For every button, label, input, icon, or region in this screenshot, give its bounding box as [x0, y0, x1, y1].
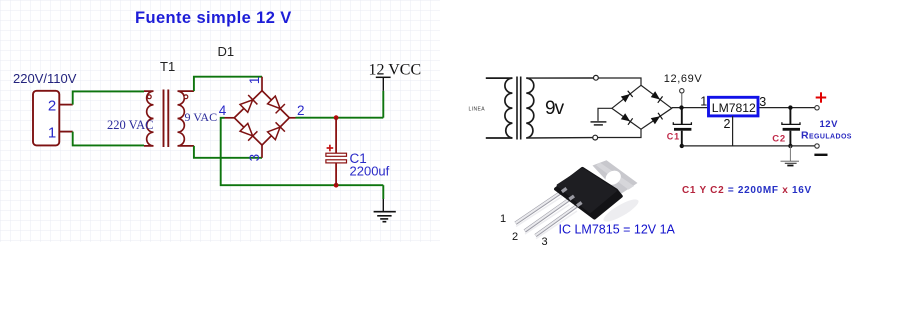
bridge D1 pin 4 stub (left)	[225, 117, 235, 119]
svg-text:2200uf: 2200uf	[350, 164, 390, 179]
transformer (right) primary winding	[505, 78, 512, 138]
svg-text:3: 3	[542, 236, 548, 248]
bridge D1 diode bottom-left	[239, 123, 257, 141]
bridge rectifier D1 diamond outline	[234, 91, 289, 145]
capacitor C2 top plate	[782, 122, 800, 124]
regulator U1 LM7812 box	[709, 97, 759, 116]
transformer T1 secondary polarity dot	[184, 95, 188, 99]
bridge D1 pin 1 stub (top)	[261, 77, 263, 91]
bridge (right) diode bottom-right	[651, 113, 663, 125]
minus sign	[814, 154, 827, 156]
transformer T1 core	[163, 90, 165, 148]
svg-text:9 VAC: 9 VAC	[185, 110, 218, 124]
package shadow	[601, 196, 641, 226]
connector pin 1 stub	[59, 131, 72, 133]
junction at C1 bottom	[334, 183, 339, 188]
package tab (metal)	[593, 160, 638, 195]
wire: top terminal to bridge top vertex	[598, 78, 641, 85]
capacitor C1 bottom lead	[335, 163, 337, 185]
package leg 2	[525, 199, 570, 231]
terminal circle top	[594, 75, 599, 80]
svg-text:2: 2	[297, 103, 305, 118]
terminal circle bottom	[593, 135, 598, 140]
package body top face	[558, 169, 616, 212]
svg-text:1: 1	[500, 213, 506, 225]
capacitor C1 plates	[326, 153, 347, 156]
wire: bridge pin 4 to ground rail	[221, 118, 384, 185]
connector pin 2 stub	[59, 104, 72, 106]
svg-text:IC LM7815 = 12V 1A: IC LM7815 = 12V 1A	[559, 223, 676, 237]
capacitor C1 plus sign	[327, 145, 334, 152]
package leg 3	[536, 206, 578, 236]
svg-text:220V/110V: 220V/110V	[13, 71, 77, 86]
svg-text:C1 Y C2 = 2200MF x 16V: C1 Y C2 = 2200MF x 16V	[682, 185, 812, 196]
transformer (right) secondary winding	[526, 78, 534, 138]
capacitor C1 (right) bottom plate	[674, 128, 691, 131]
output terminal circle plus	[815, 106, 819, 110]
wire: ground rail down to ground symbol	[382, 185, 384, 199]
grid background of left schematic	[0, 0, 440, 242]
junction at C1 top	[334, 115, 339, 120]
output terminal circle minus	[815, 144, 819, 148]
svg-text:C1: C1	[667, 131, 680, 141]
package leg 1	[516, 192, 562, 224]
leg nubs on body edge	[562, 188, 567, 191]
wire: secondary bottom to terminal circle	[526, 137, 593, 139]
bridge (right) diode bottom-left	[621, 113, 633, 125]
svg-text:12 VCC: 12 VCC	[369, 62, 422, 79]
ground symbol (left schematic)	[374, 199, 396, 222]
capacitor C2 leads	[789, 108, 791, 124]
bridge D1 diode top-left	[239, 95, 257, 113]
ground symbol (under rail)	[781, 146, 800, 166]
package body silhouette with thickness	[556, 169, 621, 218]
svg-text:9v: 9v	[545, 98, 565, 119]
svg-text:T1: T1	[160, 59, 175, 74]
wire: connector pin1 to transformer primary bottom	[73, 132, 144, 146]
bridge D1 diode top-right	[267, 95, 285, 113]
wire: bottom terminal to bridge bottom vertex	[598, 129, 641, 137]
bridge D1 diode bottom-right	[267, 122, 285, 140]
ground symbol (bridge left)	[591, 122, 607, 125]
capacitor C1 (right) leads	[681, 108, 683, 124]
wire: secondary bottom to bridge pin 3	[194, 146, 262, 158]
svg-text:D1: D1	[218, 44, 235, 59]
transformer T1 secondary winding	[178, 91, 194, 146]
probe terminal circle	[680, 89, 684, 93]
svg-text:2: 2	[48, 98, 56, 115]
bottom rail (right schematic)	[682, 145, 815, 147]
probe lead	[681, 93, 683, 108]
wire: bridge pin 2 to output node	[296, 117, 384, 119]
svg-text:220 VAC: 220 VAC	[107, 118, 153, 132]
svg-text:4: 4	[219, 103, 227, 118]
svg-text:2: 2	[512, 231, 518, 243]
svg-text:3: 3	[247, 154, 262, 162]
svg-text:1: 1	[48, 125, 56, 142]
svg-text:1: 1	[247, 77, 262, 85]
capacitor C2 bottom plate	[783, 128, 800, 131]
svg-text:LINEA: LINEA	[469, 106, 486, 112]
svg-text:1: 1	[700, 95, 707, 109]
TO-220 package photo	[516, 160, 642, 238]
svg-text:12,69V: 12,69V	[664, 73, 703, 85]
leg shadows	[516, 197, 562, 227]
connector J1 body	[33, 91, 59, 146]
transformer (right) primary top lead	[486, 77, 513, 79]
wire: secondary top to terminal circle	[526, 77, 593, 79]
port bar under 12 VCC	[376, 76, 391, 78]
svg-text:12V: 12V	[820, 119, 839, 130]
bridge rectifier (right) diamond	[612, 85, 672, 129]
svg-text:C2: C2	[772, 133, 786, 144]
svg-text:2: 2	[724, 117, 731, 131]
svg-text:Regulados: Regulados	[801, 130, 852, 142]
capacitor C1 top lead	[335, 118, 337, 154]
regulator pin 2 lead to bottom rail	[732, 116, 734, 146]
wire: secondary top to bridge pin 1	[194, 77, 262, 91]
transformer T1 primary winding	[144, 91, 154, 146]
junction dots (right schematic)	[679, 105, 683, 109]
svg-text:LM7812: LM7812	[712, 101, 756, 115]
svg-text:3: 3	[759, 95, 766, 109]
transformer T1 primary polarity dot	[147, 95, 151, 99]
wire: output node up to 12VCC port	[382, 91, 384, 118]
bridge D1 pin 2 stub (right)	[289, 117, 295, 119]
wire: bridge left vertex to ground	[598, 108, 612, 121]
plus sign (red)	[816, 92, 827, 102]
package tab hole	[603, 168, 624, 188]
bridge D1 pin 3 stub (bottom)	[261, 145, 263, 158]
bridge (right) diode top-right	[651, 91, 663, 103]
capacitor C1 (right) top plate	[673, 122, 691, 124]
transformer (right) primary bottom lead	[486, 137, 513, 139]
wire: bridge output to regulator input and output rail	[672, 107, 815, 109]
port lead (black)	[382, 77, 384, 91]
svg-text:Fuente simple 12 V: Fuente simple 12 V	[135, 9, 292, 27]
transformer (right) core	[516, 77, 518, 140]
wire: connector pin2 to transformer primary top	[73, 91, 144, 104]
bridge (right) diode top-left	[621, 91, 633, 103]
